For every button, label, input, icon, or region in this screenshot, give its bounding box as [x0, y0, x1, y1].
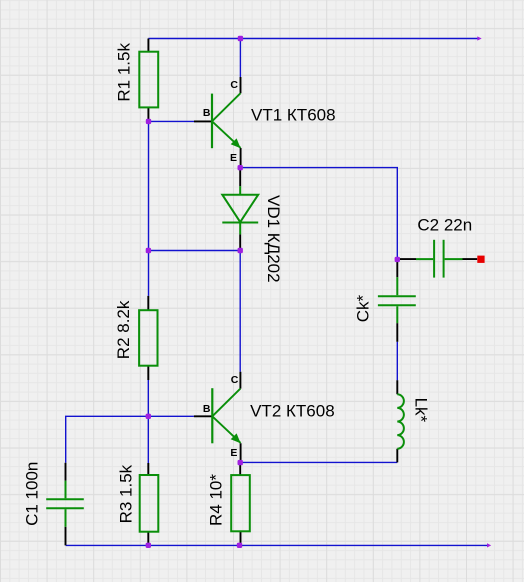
node diode bottom [238, 248, 243, 253]
resistor R2 [139, 310, 157, 366]
node R3 bottom rail [146, 543, 151, 548]
node VT2 base [146, 414, 151, 419]
wire VD1 leads [239, 168, 241, 251]
wire bottom rail [66, 544, 488, 546]
node top rail / VT1 collector [238, 36, 243, 41]
node R4 bottom rail [237, 543, 242, 548]
wire top rail [148, 38, 478, 40]
svg-text:C1 100n: C1 100n [23, 462, 42, 526]
svg-text:VT1 КТ608: VT1 КТ608 [251, 106, 336, 125]
svg-text:VT2 КТ608: VT2 КТ608 [250, 401, 335, 420]
svg-text:B: B [203, 107, 211, 119]
terminal red square C2 [477, 256, 484, 263]
svg-text:C: C [230, 79, 238, 91]
wire left vertical R1 to R2 [148, 121, 150, 296]
wire VT2 emitter to Lk [240, 461, 397, 463]
wire VT1 emitter to Ck [240, 168, 397, 260]
wire VT2 base to C1 [66, 416, 194, 462]
capacitor C1 [46, 481, 84, 527]
diode VD1 [222, 186, 258, 234]
wire VT1 collector drop [239, 39, 241, 78]
wire Ck leads [396, 260, 398, 342]
node R1 bottom / VT1 base [146, 119, 151, 124]
node VT1 emitter [238, 165, 243, 170]
svg-text:Lk*: Lk* [412, 398, 431, 423]
svg-text:C2 22n: C2 22n [417, 216, 472, 235]
capacitor C2 [416, 240, 463, 278]
svg-text:R4 10*: R4 10* [207, 474, 226, 526]
arrow bottom rail end [487, 543, 491, 547]
svg-text:R3 1.5k: R3 1.5k [116, 464, 135, 523]
wire diode bottom to VT2 collector [239, 251, 241, 372]
svg-text:VD1 КД202: VD1 КД202 [264, 195, 283, 283]
svg-text:R2 8.2k: R2 8.2k [114, 300, 133, 359]
resistor R4 [231, 475, 250, 531]
svg-text:C: C [231, 374, 239, 386]
svg-text:Ck*: Ck* [353, 295, 372, 323]
wire R1 leads [147, 39, 149, 122]
svg-text:B: B [203, 403, 211, 415]
arrow top rail end [477, 36, 481, 40]
wire VT1 pins [194, 77, 241, 168]
resistor R1 [139, 52, 158, 108]
wire VT2 pins [194, 372, 241, 463]
node left rail / diode wire [146, 248, 151, 253]
inductor Lk [397, 394, 404, 449]
node C2 / Ck [395, 257, 400, 262]
wire VT1 base [149, 120, 195, 122]
wire Ck to Lk [396, 342, 398, 381]
wire R2 bottom to R3 top [147, 380, 149, 463]
wire R2 leads [147, 296, 149, 380]
svg-text:E: E [230, 447, 237, 459]
capacitor Ck [378, 277, 416, 323]
wire R4 leads [239, 463, 241, 545]
wire C2 leads [397, 258, 477, 260]
wire C1 leads [65, 463, 67, 546]
wire node to diode bottom [148, 250, 240, 252]
transistor VT2 [212, 388, 240, 443]
wire R3 leads [147, 463, 149, 545]
svg-text:R1 1.5k: R1 1.5k [115, 43, 134, 102]
svg-text:E: E [230, 152, 237, 164]
resistor R3 [140, 475, 159, 532]
node VT2 emitter [238, 460, 243, 465]
wire Lk leads [396, 380, 398, 462]
transistor VT1 [212, 93, 241, 148]
